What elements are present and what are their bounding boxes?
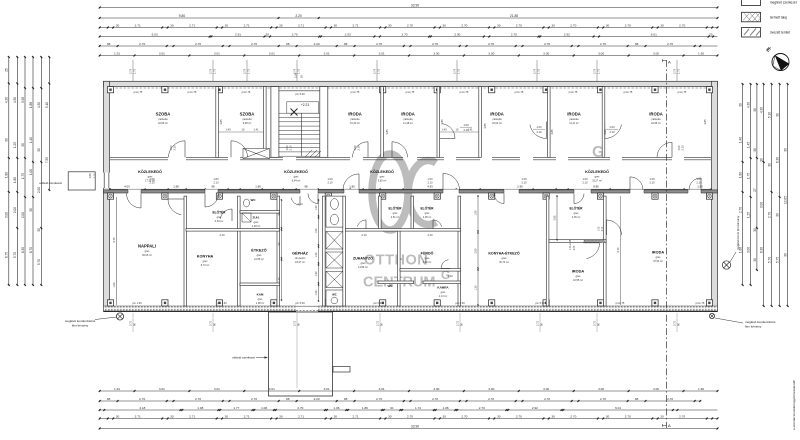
svg-text:3.00: 3.00 [760,202,764,208]
svg-text:21.85: 21.85 [510,14,518,18]
svg-text:98: 98 [635,42,639,46]
svg-text:2.10: 2.10 [536,130,542,134]
svg-text:2.75: 2.75 [375,320,379,326]
svg-text:1.75: 1.75 [676,68,680,74]
legend box 1: meglevo szerkezet [742,0,761,6]
watermark text OTTHON CENTRUM [363,144,604,291]
svg-text:3.00: 3.00 [433,387,439,391]
svg-text:22,96 m²: 22,96 m² [158,122,168,125]
svg-text:3.85: 3.85 [440,119,444,125]
svg-text:30: 30 [225,23,229,27]
top dimension row 3 (30 / 2.71 alternating) [99,23,719,28]
svg-text:1.40: 1.40 [739,137,743,143]
pm labels above bottom wall [132,301,705,305]
shower box in ZUH [242,213,251,222]
svg-text:10,55 m²: 10,55 m² [573,279,583,282]
svg-text:2.70: 2.70 [376,42,382,46]
svg-text:1.90: 1.90 [698,51,704,55]
svg-text:2.10: 2.10 [427,233,433,237]
svg-text:5.75: 5.75 [776,257,780,263]
svg-text:1.60: 1.60 [315,228,318,233]
building exterior bottom wall (glazed, dotted texture) [104,306,718,311]
svg-text:2.10: 2.10 [361,233,367,237]
svg-text:4.18: 4.18 [139,406,145,410]
svg-text:2.71: 2.71 [189,23,195,27]
svg-text:30: 30 [497,23,501,27]
svg-text:IRODA: IRODA [652,251,664,255]
svg-text:1.00: 1.00 [649,177,655,181]
svg-text:2.79: 2.79 [672,68,676,74]
svg-text:1.91: 1.91 [114,51,120,55]
building exterior left wall [104,81,110,311]
svg-text:3.00: 3.00 [598,51,604,55]
svg-text:2.71: 2.71 [244,414,250,418]
svg-text:2.70: 2.70 [251,42,257,46]
pm1.75 lintel labels top wall [134,90,687,94]
svg-text:2.79: 2.79 [128,68,132,74]
svg-text:30: 30 [753,228,757,232]
top dimension row 1 (33.90) [99,3,719,8]
svg-text:2.70: 2.70 [625,23,631,27]
rotated depth dims in top band rooms [219,119,707,135]
svg-text:3.01: 3.01 [159,51,165,55]
corridor top wall double line [110,157,711,160]
columns above bottom wall [107,300,712,306]
svg-text:1.00: 1.00 [315,252,318,257]
bottom dimension row (1.91 / 3.01 ...) [99,387,719,392]
svg-text:30: 30 [753,148,757,152]
svg-text:termett talaj: termett talaj [770,16,787,20]
svg-text:3.85: 3.85 [483,123,487,129]
svg-text:3.01: 3.01 [324,51,330,55]
svg-text:pm1.75: pm1.75 [406,90,415,94]
svg-text:11,11 m²: 11,11 m² [569,122,579,125]
svg-text:98: 98 [286,42,290,46]
svg-text:A: A [668,423,671,428]
svg-text:2.70: 2.70 [461,23,467,27]
door openings in dark wall [128,189,701,193]
svg-text:5.10: 5.10 [45,102,49,108]
svg-text:2.92: 2.92 [532,406,538,410]
svg-text:1.90: 1.90 [698,387,704,391]
svg-text:2.75: 2.75 [128,320,132,326]
svg-text:1,48 m²: 1,48 m² [252,225,261,228]
watermark Otthon Centrum OC monogram [372,154,436,230]
svg-text:2.70: 2.70 [667,397,673,401]
svg-text:WC: WC [332,293,337,297]
svg-text:6.30: 6.30 [21,247,25,253]
svg-text:gres: gres [254,221,260,224]
svg-text:30: 30 [442,414,446,418]
svg-text:22,96 m²: 22,96 m² [651,122,661,125]
corridor label 3 [370,169,394,183]
svg-text:2.05: 2.05 [574,245,576,250]
svg-text:98: 98 [344,397,348,401]
axis leader labels above top wall [128,60,680,81]
svg-text:3.00: 3.00 [433,51,439,55]
staircase top inner line [279,90,320,92]
svg-text:2.70: 2.70 [292,32,298,36]
corridor label 2 [284,169,308,183]
room IRODA 4 [567,112,581,126]
svg-text:2.79: 2.79 [532,68,536,74]
building exterior top wall [104,81,718,86]
svg-text:2.10: 2.10 [357,145,361,151]
svg-text:2.10: 2.10 [149,181,155,185]
svg-text:2.70: 2.70 [516,23,522,27]
svg-text:30: 30 [170,414,174,418]
svg-text:98: 98 [211,185,215,189]
svg-text:10,85 m²: 10,85 m² [254,258,264,261]
svg-text:2.70: 2.70 [488,42,494,46]
svg-text:30: 30 [606,414,610,418]
svg-text:ELŐTÉR: ELŐTÉR [389,206,403,211]
svg-text:2.79: 2.79 [452,68,456,74]
svg-text:2,51 m²: 2,51 m² [391,216,400,219]
svg-text:30: 30 [388,414,392,418]
svg-text:2.71: 2.71 [352,414,358,418]
crossed landing box left of stair [243,149,270,159]
svg-text:2.10: 2.10 [649,181,655,185]
svg-text:gres: gres [656,256,662,259]
svg-text:pm 5.00: pm 5.00 [295,301,305,305]
rotated labels near divider door [570,226,604,250]
svg-text:2.70: 2.70 [516,414,522,418]
svg-text:2.93: 2.93 [345,32,351,36]
svg-text:2.75: 2.75 [535,320,539,326]
corridor label 4 [585,169,609,183]
opening in left exterior wall at corridor [103,173,110,189]
svg-text:GÉPHÁZ: GÉPHÁZ [292,251,309,256]
svg-text:gres: gres [380,176,386,179]
svg-text:1.69: 1.69 [88,173,92,179]
svg-text:2.70: 2.70 [139,397,145,401]
svg-text:pm1.75: pm1.75 [624,90,633,94]
svg-text:2.79: 2.79 [292,68,296,74]
room SZOBA 2 [240,112,255,126]
svg-text:30: 30 [551,414,555,418]
svg-text:IRODA: IRODA [490,112,504,117]
svg-text:1.00+0.95: 1.00+0.95 [570,239,572,250]
svg-text:KONYHA-ÉTKEZŐ: KONYHA-ÉTKEZŐ [488,251,520,256]
svg-text:gres: gres [217,216,223,219]
svg-text:gres: gres [294,176,300,179]
svg-text:1.80: 1.80 [349,185,355,189]
svg-text:30: 30 [784,253,788,257]
svg-text:2.20: 2.20 [314,42,320,46]
svg-text:2.70: 2.70 [195,397,201,401]
axis leader labels below bottom wall [128,313,680,388]
svg-text:6.30: 6.30 [776,157,780,163]
svg-text:IRODA: IRODA [649,112,663,117]
svg-text:a szondai tervekkel együtt kez: a szondai tervekkel együtt kezelendő! [792,380,796,430]
dim line inside big IRODA [617,196,620,305]
small door dimension labels bottom of top band [169,123,685,151]
small door dimension labels corridor/bottom [149,177,702,278]
svg-text:2.70: 2.70 [667,42,673,46]
svg-text:33.90: 33.90 [411,424,419,428]
svg-text:47,54 m²: 47,54 m² [653,260,663,263]
svg-text:1.00: 1.00 [521,177,527,181]
svg-text:1.91: 1.91 [114,387,120,391]
svg-text:1.00: 1.00 [677,145,681,151]
svg-text:30: 30 [606,23,610,27]
svg-text:pm 1.60: pm 1.60 [132,301,142,305]
svg-text:2.10: 2.10 [521,181,527,185]
svg-text:2.75: 2.75 [455,320,459,326]
svg-text:30: 30 [760,158,764,162]
legend box 3: tervezett terulet [742,28,761,38]
door arcs top band [169,122,673,158]
chimney right-middle [722,261,730,269]
svg-text:4.30: 4.30 [5,97,9,103]
svg-text:33.90: 33.90 [411,3,419,7]
svg-text:ELŐTÉR: ELŐTÉR [421,206,435,211]
door in ELOTER/IRODA divider [584,243,600,259]
svg-text:2.70: 2.70 [432,397,438,401]
svg-text:98: 98 [107,397,111,401]
svg-text:1.80: 1.80 [697,185,703,189]
svg-text:2.70: 2.70 [195,42,201,46]
svg-text:2.75: 2.75 [292,320,296,326]
svg-text:30: 30 [660,414,664,418]
svg-text:WC: WC [251,198,257,202]
svg-text:30: 30 [768,163,772,167]
room ELOTER 1 [213,210,227,224]
svg-text:2.10: 2.10 [173,145,177,151]
svg-text:1.77: 1.77 [233,406,239,410]
legend box 2: termett talaj [742,12,761,21]
svg-text:2.75: 2.75 [592,320,596,326]
svg-text:30: 30 [265,32,269,36]
svg-text:2.70: 2.70 [679,23,685,27]
svg-text:30: 30 [334,414,338,418]
svg-text:2.10: 2.10 [213,181,219,185]
svg-text:gres: gres [203,260,209,263]
svg-text:gres: gres [425,257,431,260]
svg-text:1.80: 1.80 [5,172,9,178]
right vertical dimension chains [739,83,789,307]
svg-text:5.70: 5.70 [37,259,41,265]
svg-text:2.71: 2.71 [189,414,195,418]
dim line inside KONYHA-ETKEZO [475,195,479,305]
svg-text:1.08: 1.08 [261,406,267,410]
north arrow [765,45,790,70]
svg-text:6.75: 6.75 [5,252,9,258]
room KAMRA [437,286,449,299]
svg-text:2.70: 2.70 [600,42,606,46]
svg-text:6.75: 6.75 [113,237,116,242]
svg-text:1.75: 1.75 [93,173,97,179]
svg-text:sim.beton: sim.beton [295,257,306,260]
svg-text:KAM: KAM [257,293,264,297]
svg-text:25: 25 [709,32,713,36]
svg-text:6.70: 6.70 [29,247,33,253]
svg-text:1.00: 1.00 [315,205,318,210]
svg-text:1.45: 1.45 [747,142,751,148]
svg-text:pm1.75: pm1.75 [460,90,469,94]
room GEPHAZ [292,251,309,265]
svg-text:pm 0.60: pm 0.60 [373,301,383,305]
dim line inside ELOTER right [554,195,558,240]
svg-text:2.75: 2.75 [672,320,676,326]
top dimension row 4 (6.03 / 2.91 / 2.70 ...) [99,32,718,37]
svg-text:1.75: 1.75 [296,68,300,74]
door opening in bottom wall to porch [296,306,318,312]
svg-text:4,04 m²: 4,04 m² [215,220,224,223]
svg-text:övezett terület: övezett terület [770,31,790,35]
svg-text:2.70: 2.70 [139,42,145,46]
svg-text:30: 30 [279,414,283,418]
svg-text:11,48 m²: 11,48 m² [403,122,413,125]
svg-text:4.93: 4.93 [427,185,433,189]
svg-text:30: 30 [116,23,120,27]
svg-text:10,40 m²: 10,40 m² [350,122,360,125]
svg-text:4,05 m²: 4,05 m² [423,216,432,219]
svg-text:30: 30 [551,23,555,27]
svg-text:gres: gres [441,291,447,294]
svg-text:1.25: 1.25 [747,212,751,218]
chimney bottom-left [116,313,123,320]
room FURDO [421,251,434,265]
svg-text:1.75: 1.75 [21,173,25,179]
svg-text:2.10: 2.10 [297,202,303,206]
svg-text:3.85: 3.85 [385,129,389,135]
svg-text:3.98: 3.98 [21,97,25,103]
svg-text:1.98: 1.98 [173,185,179,189]
svg-text:26,05 m²: 26,05 m² [142,254,152,257]
svg-text:1.06: 1.06 [333,406,339,410]
svg-text:1.00: 1.00 [213,177,219,181]
svg-text:8,73 m²: 8,73 m² [201,264,210,267]
top dimension row 5 (98 / 2.70 / 37 ...) [99,42,718,47]
stair landing +2.21 [287,102,319,113]
svg-text:gres: gres [361,262,367,265]
svg-text:2.10: 2.10 [602,226,604,231]
svg-text:KAMRA: KAMRA [437,286,449,290]
stair treads [279,109,320,157]
svg-text:1.75: 1.75 [536,68,540,74]
svg-text:4.30: 4.30 [747,102,751,108]
svg-text:7.55: 7.55 [45,157,49,163]
svg-text:KONYHA: KONYHA [197,255,214,259]
svg-text:2.70: 2.70 [297,406,303,410]
svg-text:OTTHON: OTTHON [364,253,428,269]
svg-text:3.00: 3.00 [598,387,604,391]
NAPPALI inner dim line [113,197,116,305]
svg-text:pm1.75: pm1.75 [351,90,360,94]
svg-text:pm1.75: pm1.75 [242,90,251,94]
svg-text:1.00: 1.00 [582,177,588,181]
svg-text:33,27 m²: 33,27 m² [592,180,602,183]
svg-text:3.01: 3.01 [379,387,385,391]
svg-text:3.01: 3.01 [159,387,165,391]
top band partition walls [216,87,605,158]
svg-text:2.20: 2.20 [314,397,320,401]
svg-text:2.70: 2.70 [570,414,576,418]
room NAPPALI [138,244,156,258]
svg-text:2.10: 2.10 [681,145,685,151]
svg-text:meglévő kond. fém kémény: meglévő kond. fém kémény [736,215,740,250]
svg-text:2.10: 2.10 [447,274,453,278]
svg-text:1.09: 1.09 [599,226,601,231]
svg-text:2.70: 2.70 [407,414,413,418]
svg-text:9,28 m²: 9,28 m² [243,122,252,125]
svg-text:2.90: 2.90 [454,32,460,36]
svg-text:1.00: 1.00 [29,169,33,175]
svg-text:1.74: 1.74 [415,406,421,410]
svg-text:98: 98 [286,397,290,401]
svg-text:2.10: 2.10 [289,145,293,151]
svg-text:IRODA: IRODA [567,112,581,117]
svg-text:ZUH.: ZUH. [253,216,260,220]
svg-text:1.98: 1.98 [197,406,203,410]
columns below dark corridor wall [107,193,712,199]
svg-text:pm1.75: pm1.75 [569,90,578,94]
svg-text:2.70: 2.70 [511,32,517,36]
top dimension row 2 (9.80 / 2.20 / 21.85) [99,14,719,19]
svg-text:3.01: 3.01 [379,51,385,55]
svg-text:2.70: 2.70 [407,23,413,27]
svg-text:2.65: 2.65 [554,215,557,220]
svg-text:3.00: 3.00 [488,51,494,55]
bottom dimension row (98 / 2.70 / 37) [99,397,702,402]
svg-text:KÖZLEKEDŐ: KÖZLEKEDŐ [585,169,609,174]
svg-text:parketta: parketta [242,118,252,121]
svg-text:5.70: 5.70 [13,252,17,258]
sliding door dark dashed band in KONYHA-ETKEZO north wall [584,240,605,242]
svg-text:1.00: 1.00 [696,177,702,181]
svg-text:2.70: 2.70 [544,42,550,46]
svg-text:2.79: 2.79 [242,68,246,74]
svg-text:2.00: 2.00 [37,187,41,193]
svg-text:1.88: 1.88 [29,102,33,108]
svg-text:30: 30 [5,138,9,142]
svg-text:2.71: 2.71 [135,23,141,27]
svg-text:pm 1.60: pm 1.60 [217,301,227,305]
wc cell bottom of duct strip [326,290,343,306]
svg-text:1.75: 1.75 [212,68,216,74]
svg-text:4,05 m²: 4,05 m² [572,216,581,219]
svg-text:pm 0.60: pm 0.60 [455,301,465,305]
svg-text:22,02 m²: 22,02 m² [492,122,502,125]
svg-text:FÜRDŐ: FÜRDŐ [421,251,434,256]
svg-text:1.25: 1.25 [13,142,17,148]
svg-text:3.01: 3.01 [214,51,220,55]
svg-text:2.10: 2.10 [609,130,615,134]
svg-text:2.75: 2.75 [208,320,212,326]
svg-text:2.70: 2.70 [461,414,467,418]
door from ELOTER into big IRODA [607,220,622,235]
svg-text:fém kémény: fém kémény [745,325,762,329]
svg-text:1.41: 1.41 [253,128,259,132]
svg-text:WC: WC [388,284,394,288]
building exterior right wall [712,81,718,311]
svg-text:5,60 m²: 5,60 m² [378,180,387,183]
svg-text:1.00: 1.00 [315,290,318,295]
svg-text:1.00: 1.00 [327,177,333,181]
room ZUHANYZO [353,256,373,270]
svg-text:2.70: 2.70 [376,397,382,401]
room ETKEZO [251,248,266,262]
svg-text:2.70: 2.70 [432,42,438,46]
svg-text:30: 30 [753,108,757,112]
svg-text:2.70: 2.70 [679,414,685,418]
svg-text:1.75: 1.75 [456,68,460,74]
svg-text:2.20: 2.20 [295,14,302,18]
chimney right leader [730,252,736,262]
room IRODA 2 [401,112,415,126]
